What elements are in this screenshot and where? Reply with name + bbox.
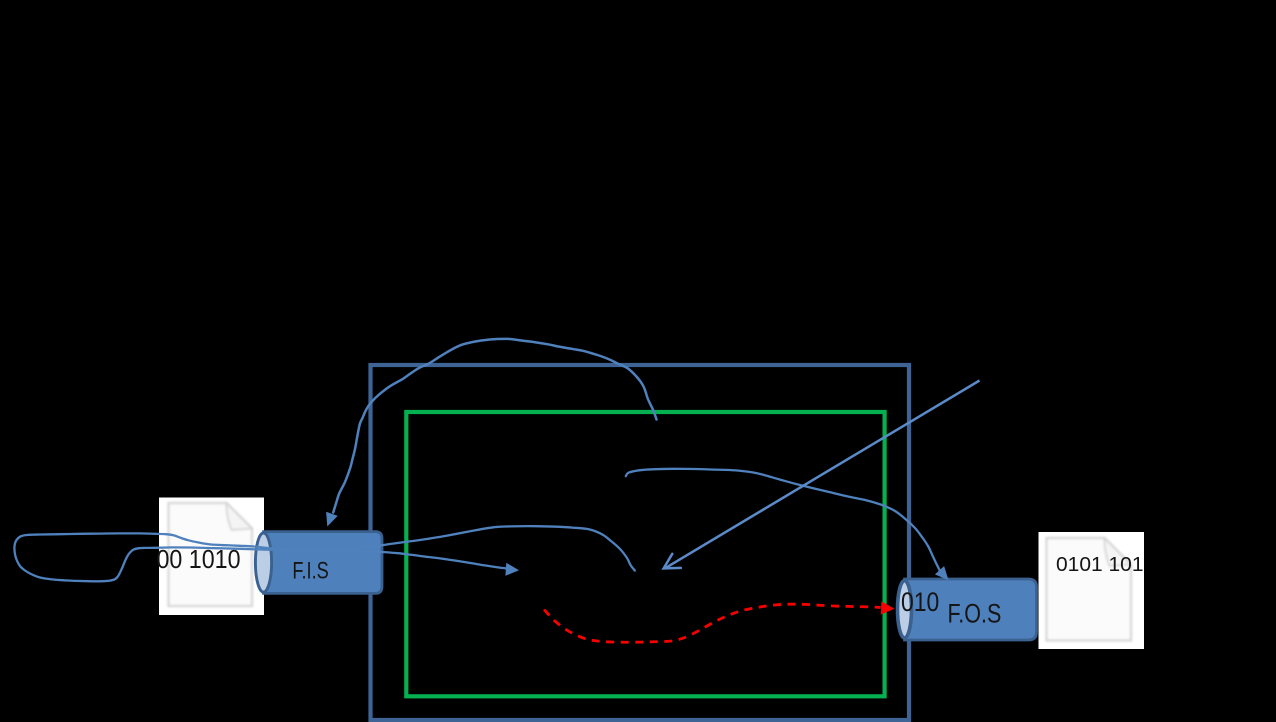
straight annotation line from upper right into box: [666, 381, 980, 568]
freehand stroke from inside box down-right to F.O.S: [626, 469, 940, 570]
outer program rectangle (dark blue): [371, 365, 910, 720]
source file icon (left, "00 1010"): [159, 498, 264, 616]
destination file icon (right, "0101 101"): [1039, 532, 1145, 649]
inner rectangle (green): [406, 412, 884, 696]
svg-text:010: 010: [901, 587, 939, 617]
arrowhead of loop stroke (points right, inside green box): [505, 563, 519, 576]
open arrowhead of straight line: [664, 554, 681, 569]
freehand stroke: loop from program through F.I.S, left loop, back to arrow in program: [14, 526, 634, 581]
svg-text:0101 101: 0101 101: [1056, 554, 1144, 576]
F.O.S cylinder (FileOutputStream): [898, 579, 1037, 640]
arrowhead of arc (points down-left onto F.I.S): [326, 512, 338, 527]
F.I.S cylinder (FileInputStream): [255, 532, 382, 594]
svg-text:F.O.S: F.O.S: [948, 598, 1002, 628]
red dashed stroke to F.O.S: [544, 604, 881, 642]
freehand arc from inside box over the top down to F.I.S: [333, 339, 656, 513]
svg-text:F.I.S: F.I.S: [292, 557, 328, 584]
red arrowhead at F.O.S: [881, 601, 895, 614]
svg-text:00 1010: 00 1010: [157, 546, 241, 574]
arrowhead onto F.O.S (points down-right): [935, 566, 949, 580]
